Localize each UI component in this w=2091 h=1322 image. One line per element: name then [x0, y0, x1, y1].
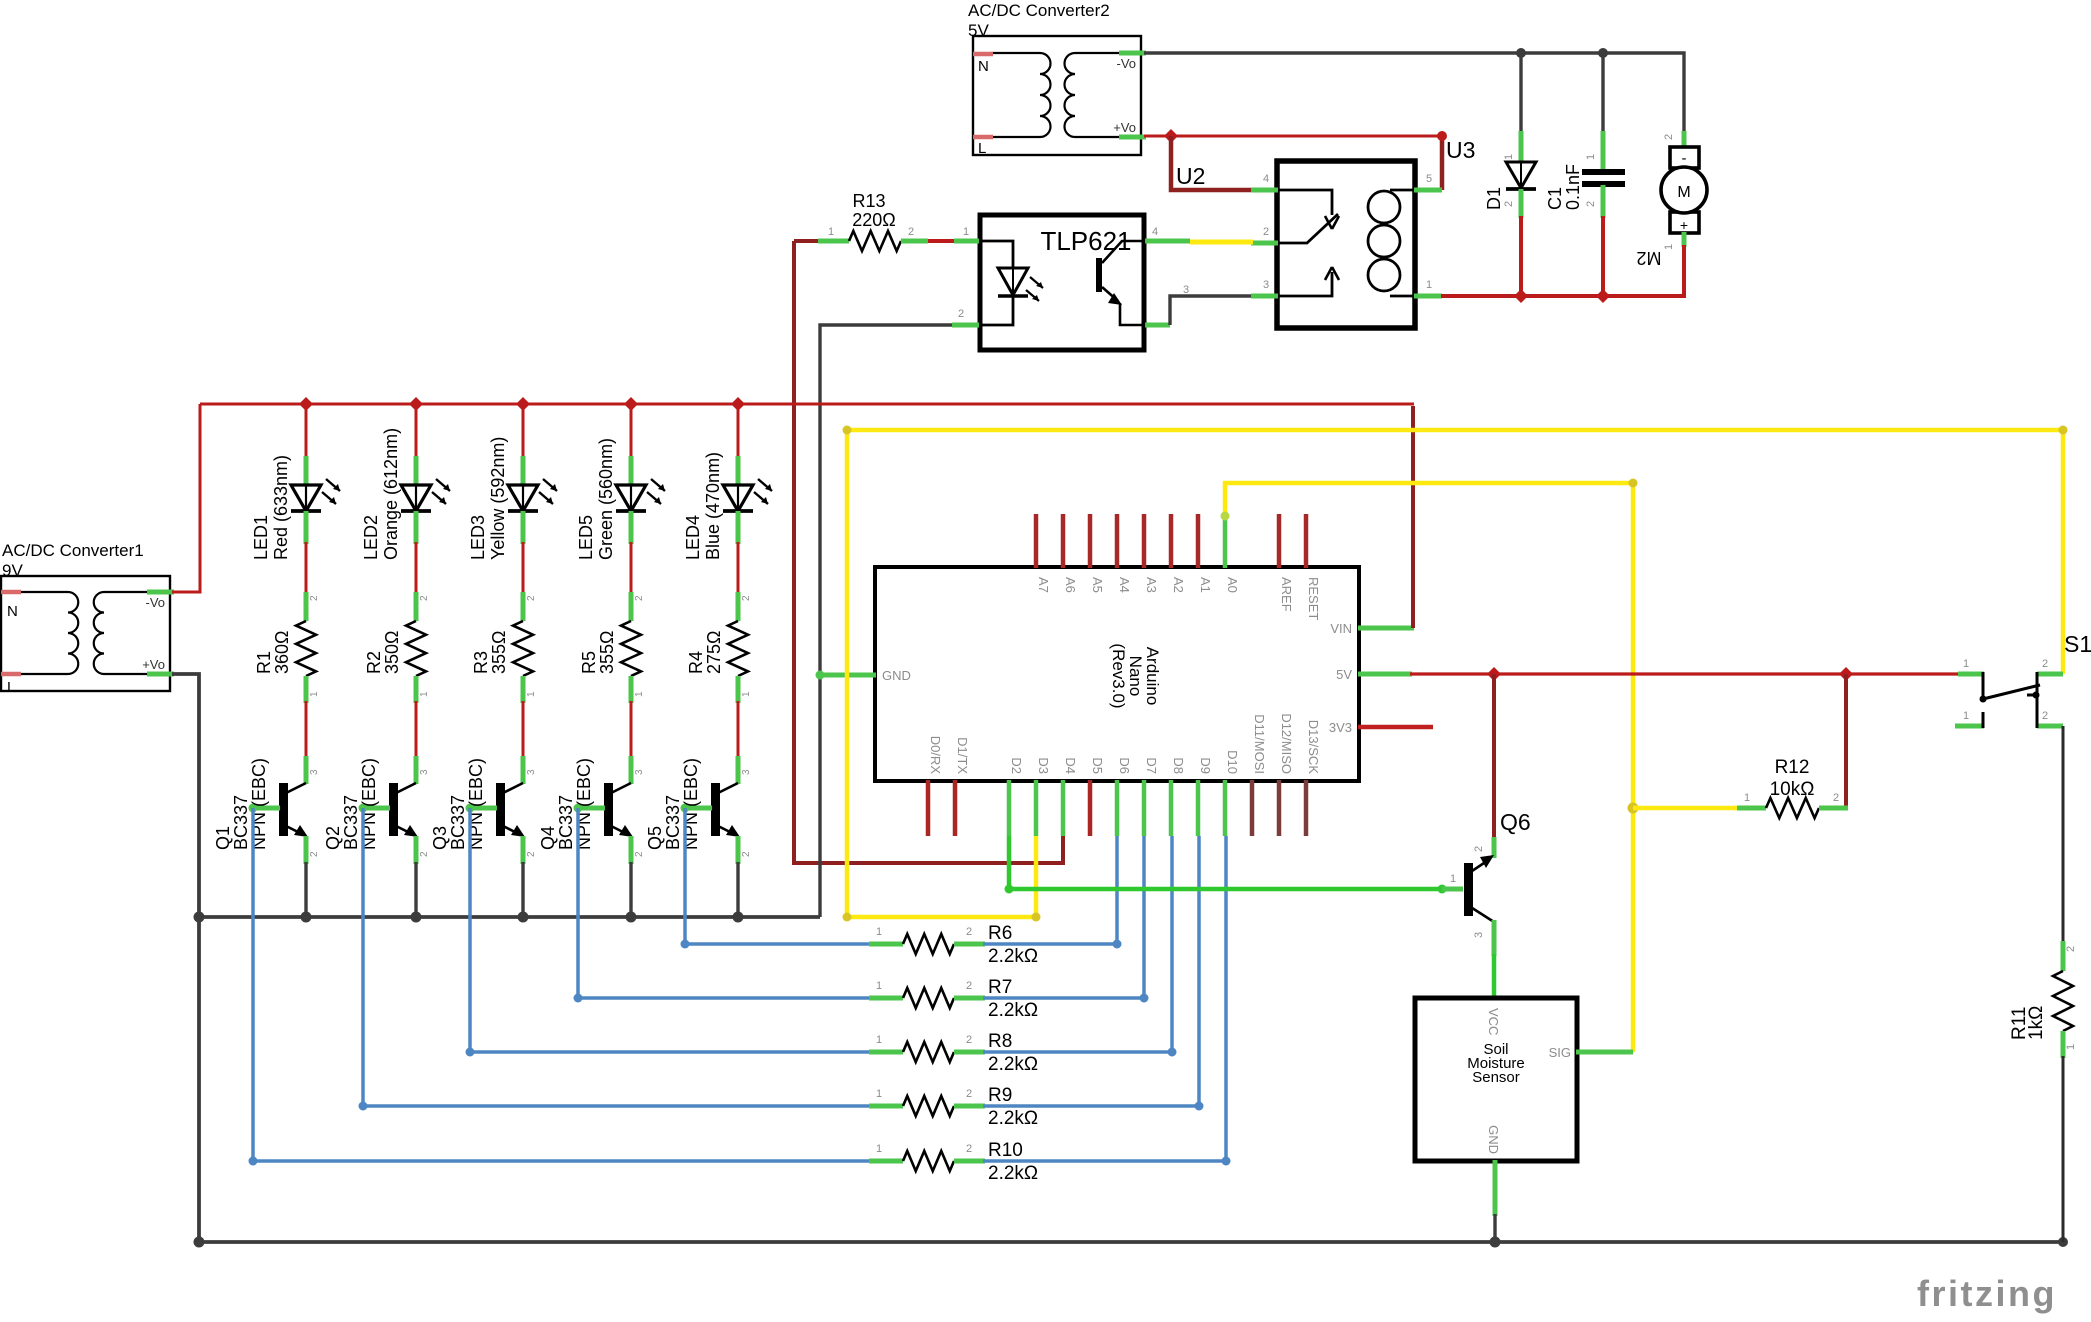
wire ground bus emitters [199, 915, 820, 919]
converter1 -Vo pin stub [147, 590, 174, 595]
svg-text:+Vo: +Vo [1113, 120, 1136, 135]
svg-text:AREF: AREF [1279, 577, 1294, 612]
switch S1 [1955, 672, 2063, 728]
wire U2 branch to relay pin4 [1171, 136, 1253, 190]
svg-text:2: 2 [966, 1088, 972, 1100]
svg-text:10kΩ: 10kΩ [1770, 779, 1815, 800]
svg-text:D10: D10 [1225, 750, 1240, 774]
wire blue R9 to D9 [983, 836, 1199, 1106]
LED LED3 Yellow (592nm) [508, 456, 557, 544]
svg-text:Q3: Q3 [430, 826, 450, 850]
svg-text:BC337: BC337 [556, 795, 576, 850]
converter2 pin N stub [973, 52, 993, 57]
wire -Vo to red LED bus [172, 404, 200, 592]
wire D1 top drop [1519, 53, 1522, 133]
converter1 pin L stub [1, 672, 21, 677]
svg-text:2: 2 [741, 851, 752, 857]
svg-text:L: L [7, 679, 15, 696]
junction red C1 bottom [1596, 289, 1610, 303]
svg-text:R9: R9 [988, 1085, 1012, 1106]
wire yellow to R12 pin1 [1633, 806, 1739, 811]
wire LED2 to R2 [415, 542, 418, 594]
resistor R2 350Ω [406, 592, 426, 703]
svg-text:BC337: BC337 [341, 795, 361, 850]
svg-text:2: 2 [966, 1034, 972, 1046]
transistor Q1 BC337 [249, 756, 309, 864]
wire +Vo to U3 top [1144, 135, 1444, 138]
svg-text:R6: R6 [988, 923, 1012, 944]
svg-text:1: 1 [1963, 658, 1969, 670]
Arduino pin 5V stub [1358, 672, 1412, 677]
junction green GND to dark drop [816, 671, 825, 680]
svg-text:1: 1 [876, 1034, 882, 1046]
svg-text:2: 2 [966, 980, 972, 992]
svg-text:C1: C1 [1545, 187, 1565, 210]
svg-text:3: 3 [1473, 932, 1485, 938]
resistor R1 360Ω [296, 592, 316, 703]
svg-text:2: 2 [1663, 134, 1675, 140]
wire red Q6 drop [1492, 674, 1496, 839]
junction red U2 branch [1164, 129, 1178, 143]
Arduino pin GND stub [820, 673, 876, 678]
wire Q1 emitter to ground bus [304, 862, 307, 917]
wire C1 top drop [1601, 53, 1604, 133]
svg-text:M: M [1677, 184, 1690, 201]
wire green D2 to Q6 base [1009, 836, 1442, 889]
Arduino pin A1 stub [1196, 514, 1201, 568]
svg-text:2.2kΩ: 2.2kΩ [988, 946, 1038, 967]
TLP621 pin2 stub [952, 323, 979, 328]
Arduino pin D10 stub [1223, 780, 1228, 836]
wire R1 to Q1 [305, 701, 308, 758]
junction ground bus Q1 [301, 912, 312, 923]
svg-text:D4: D4 [1063, 757, 1078, 774]
transistor Q3 BC337 [466, 756, 526, 864]
svg-text:220Ω: 220Ω [852, 210, 896, 230]
svg-text:D0/RX: D0/RX [928, 736, 943, 775]
resistor R3 355Ω [513, 592, 533, 703]
junction red bus col R2 [409, 397, 423, 411]
converter1 +Vo pin stub [147, 672, 174, 677]
converter2 pin L stub [973, 135, 993, 140]
junction green Q6 base [1438, 885, 1447, 894]
junction yellow D3 corner [1032, 913, 1041, 922]
svg-text:1: 1 [1663, 244, 1675, 250]
wire R3 to Q3 [522, 701, 525, 758]
svg-text:Q1: Q1 [213, 826, 233, 850]
svg-text:GND: GND [1486, 1125, 1501, 1154]
svg-text:2: 2 [419, 851, 430, 857]
svg-text:1: 1 [419, 691, 430, 697]
svg-text:GND: GND [882, 668, 911, 683]
svg-text:U3: U3 [1446, 137, 1475, 163]
svg-text:2.2kΩ: 2.2kΩ [988, 1000, 1038, 1021]
svg-text:2: 2 [1585, 201, 1597, 207]
svg-text:275Ω: 275Ω [704, 631, 724, 675]
wire relay pin1 red bus [1441, 294, 1605, 298]
svg-text:Orange (612nm): Orange (612nm) [381, 428, 401, 560]
svg-text:1kΩ: 1kΩ [2026, 1006, 2047, 1040]
svg-text:R12: R12 [1775, 757, 1810, 778]
svg-text:2: 2 [741, 595, 752, 601]
svg-text:R7: R7 [988, 977, 1012, 998]
junction blue corner R8 [1168, 1048, 1177, 1057]
svg-text:LED5: LED5 [576, 515, 596, 560]
wire motor pin1 to red bus [1603, 245, 1684, 296]
wire red bus to LED5 [630, 404, 633, 458]
junction ground bus Q3 [518, 912, 529, 923]
svg-text:1: 1 [828, 226, 834, 238]
svg-text:Q2: Q2 [323, 826, 343, 850]
svg-text:R1: R1 [254, 651, 274, 674]
svg-text:2.2kΩ: 2.2kΩ [988, 1108, 1038, 1129]
Arduino pin A5 stub [1088, 514, 1093, 568]
svg-text:VCC: VCC [1486, 1008, 1501, 1035]
Arduino pin A6 stub [1061, 514, 1066, 568]
svg-text:A7: A7 [1036, 577, 1051, 593]
svg-text:N: N [7, 603, 18, 620]
svg-text:A4: A4 [1117, 577, 1132, 593]
wire blue R10 to D10 [983, 836, 1226, 1161]
wire Q5 emitter to ground bus [736, 862, 739, 917]
junction yellow A0 corner [1629, 479, 1638, 488]
junction yellow R12 branch [1628, 803, 1639, 814]
svg-text:U2: U2 [1176, 163, 1205, 189]
junction dark D1 top [1516, 48, 1526, 58]
converter1 pin N stub [1, 590, 21, 595]
svg-text:A1: A1 [1198, 577, 1213, 593]
resistor R11 1kΩ [2053, 941, 2073, 1058]
Arduino pin RESET stub [1304, 514, 1309, 568]
junction green D2 corner [1005, 885, 1014, 894]
resistor R13 [794, 231, 981, 251]
svg-text:BC337: BC337 [231, 795, 251, 850]
svg-text:D12/MISO: D12/MISO [1279, 713, 1294, 774]
wire blue Q4 base [578, 808, 871, 998]
Arduino pin D8 stub [1169, 780, 1174, 836]
wire blue R8 to D8 [983, 836, 1172, 1052]
Arduino pin A0 stub [1223, 514, 1228, 568]
Arduino pin D1/TX stub [953, 780, 958, 836]
Arduino pin D0/RX stub [926, 780, 931, 836]
junction blue corner Q4 [574, 994, 583, 1003]
svg-text:N: N [978, 58, 989, 75]
svg-text:S1: S1 [2064, 631, 2091, 657]
svg-text:1: 1 [963, 226, 969, 238]
wire blue Q2 base [363, 808, 871, 1106]
wire red D4 to R13 (left vertical + bottom run) [794, 241, 1063, 863]
wire blue Q5 base [685, 808, 871, 944]
svg-text:D1/TX: D1/TX [955, 737, 970, 774]
wire green Q6 emitter to sensor VCC [1492, 954, 1497, 999]
wire R5 to Q4 [630, 701, 633, 758]
svg-text:1: 1 [1450, 873, 1456, 885]
TLP621 pin4 stub [1145, 239, 1190, 244]
LED LED5 Green (560nm) [616, 456, 665, 544]
wire VIN riser [1411, 406, 1415, 628]
wire C1 to red bus [1601, 216, 1605, 296]
wire -Vo bus to motor [1144, 53, 1684, 131]
svg-text:1: 1 [876, 980, 882, 992]
junction yellow top-left corner [843, 426, 852, 435]
svg-text:2: 2 [309, 595, 320, 601]
svg-text:A3: A3 [1144, 577, 1159, 593]
svg-text:R3: R3 [471, 651, 491, 674]
svg-text:Blue (470nm): Blue (470nm) [703, 452, 723, 560]
svg-text:D13/SCK: D13/SCK [1306, 720, 1321, 775]
Arduino pin 3V3 stub [1358, 725, 1433, 730]
svg-text:355Ω: 355Ω [597, 631, 617, 675]
wire yellow A0 to R12 and SIG [1225, 483, 1633, 1052]
svg-text:360Ω: 360Ω [272, 631, 292, 675]
svg-text:R10: R10 [988, 1140, 1023, 1161]
soil moisture sensor box [1415, 998, 1577, 1161]
relay pin4 stub [1251, 188, 1278, 193]
svg-text:AC/DC Converter2: AC/DC Converter2 [968, 1, 1110, 20]
svg-text:A2: A2 [1171, 577, 1186, 593]
svg-text:R2: R2 [364, 651, 384, 674]
svg-text:2: 2 [634, 595, 645, 601]
relay switch contacts [1279, 190, 1339, 296]
svg-text:4: 4 [1263, 173, 1269, 185]
junction ground bus Q5 [733, 912, 744, 923]
wire red 9V bus [200, 403, 1414, 406]
junction yellow left corner [843, 913, 852, 922]
Arduino pin D4 stub [1061, 780, 1066, 836]
resistor R10 2.2kΩ [869, 1151, 985, 1171]
svg-text:1: 1 [876, 1143, 882, 1155]
transistor Q2 BC337 [359, 756, 419, 864]
svg-text:2: 2 [966, 1143, 972, 1155]
wire R2 to Q2 [415, 701, 418, 758]
Arduino pin A2 stub [1169, 514, 1174, 568]
wire R4 to Q5 [737, 701, 740, 758]
AC/DC Converter2 U-box [973, 36, 1141, 157]
junction blue corner Q2 [359, 1102, 368, 1111]
Arduino pin A3 stub [1142, 514, 1147, 568]
wire LED5 to R5 [630, 542, 633, 594]
svg-text:3: 3 [1183, 284, 1189, 296]
wire TLP pin2 to ground bus [820, 325, 952, 917]
wire yellow D3 to S1 [847, 430, 2063, 917]
svg-text:3: 3 [419, 769, 430, 775]
junction blue corner Q1 [249, 1157, 258, 1166]
wire blue Q1 base [253, 808, 871, 1161]
svg-text:2: 2 [1263, 226, 1269, 238]
wire red bus to LED3 [522, 404, 525, 458]
svg-text:2: 2 [908, 226, 914, 238]
svg-text:2: 2 [1503, 201, 1515, 207]
svg-text:3V3: 3V3 [1329, 720, 1352, 735]
Arduino pin D6 stub [1115, 780, 1120, 836]
wire blue Q3 base [470, 808, 871, 1052]
svg-text:2.2kΩ: 2.2kΩ [988, 1163, 1038, 1184]
svg-text:2: 2 [634, 851, 645, 857]
svg-text:R4: R4 [686, 651, 706, 674]
junction red Q6 branch [1487, 667, 1501, 681]
LED LED2 Orange (612nm) [401, 456, 450, 544]
svg-text:D5: D5 [1090, 757, 1105, 774]
svg-text:LED1: LED1 [251, 515, 271, 560]
relay U3 box [1277, 161, 1415, 328]
wire blue R6 to D6 [983, 836, 1117, 944]
junction red R12 branch [1839, 667, 1853, 681]
svg-text:R5: R5 [579, 651, 599, 674]
svg-text:(Rev3.0): (Rev3.0) [1109, 643, 1128, 708]
svg-text:A5: A5 [1090, 577, 1105, 593]
svg-text:D8: D8 [1171, 757, 1186, 774]
svg-text:SIG: SIG [1549, 1045, 1571, 1060]
svg-text:Red (633nm): Red (633nm) [271, 455, 291, 560]
svg-text:A6: A6 [1063, 577, 1078, 593]
svg-text:350Ω: 350Ω [382, 631, 402, 675]
converter2 -Vo pin stub [1119, 51, 1146, 56]
wire bottom ground bus [199, 1240, 2063, 1244]
resistor R6 2.2kΩ [869, 934, 985, 954]
svg-text:D3: D3 [1036, 757, 1051, 774]
svg-text:1: 1 [634, 691, 645, 697]
svg-text:1: 1 [526, 691, 537, 697]
resistor R12 10kΩ [1737, 798, 1848, 818]
svg-text:1: 1 [309, 691, 320, 697]
svg-text:VIN: VIN [1330, 621, 1352, 636]
svg-text:R8: R8 [988, 1031, 1012, 1052]
svg-text:TLP621: TLP621 [1040, 226, 1131, 256]
svg-text:Sensor: Sensor [1472, 1069, 1520, 1086]
svg-text:1: 1 [1963, 710, 1969, 722]
wire R11 to ground bus [2062, 1056, 2065, 1242]
junction blue corner Q5 [681, 940, 690, 949]
wire red 5V bus [1410, 672, 1960, 675]
svg-text:Q5: Q5 [645, 826, 665, 850]
svg-text:D11/MOSI: D11/MOSI [1252, 714, 1267, 774]
svg-text:D6: D6 [1117, 757, 1132, 774]
junction ground sensor [1490, 1237, 1501, 1248]
svg-text:2: 2 [1473, 846, 1485, 852]
junction dark C1 top [1598, 48, 1608, 58]
sensor GND stub [1493, 1160, 1498, 1216]
Arduino pin D5 stub [1088, 780, 1093, 836]
svg-text:A0: A0 [1225, 577, 1240, 593]
svg-text:3: 3 [1263, 279, 1269, 291]
resistor R9 2.2kΩ [869, 1096, 985, 1116]
sensor SIG stub [1576, 1050, 1633, 1055]
svg-text:D9: D9 [1198, 757, 1213, 774]
wire +Vo down to ground bus [172, 674, 199, 1242]
svg-text:355Ω: 355Ω [489, 631, 509, 675]
svg-text:2: 2 [2065, 946, 2077, 952]
motor M2 [1661, 131, 1707, 247]
junction red D1 bottom [1514, 289, 1528, 303]
svg-text:2: 2 [966, 926, 972, 938]
svg-text:0.1nF: 0.1nF [1563, 164, 1583, 210]
svg-text:+: + [1680, 217, 1688, 233]
junction bottom-left corner [194, 1237, 205, 1248]
transistor Q6 [1442, 837, 1494, 956]
junction red bus col R5 [624, 397, 638, 411]
svg-text:+Vo: +Vo [142, 657, 165, 672]
junction ground bus Q2 [411, 912, 422, 923]
wire red bus to LED4 [737, 404, 740, 458]
resistor R4 275Ω [728, 592, 748, 703]
svg-text:2.2kΩ: 2.2kΩ [988, 1054, 1038, 1075]
wire LED3 to R3 [522, 542, 525, 594]
svg-text:1: 1 [2065, 1044, 2077, 1050]
svg-text:-Vo: -Vo [145, 595, 165, 610]
TLP621 pin3 stub [1145, 323, 1170, 328]
relay pin2 stub [1251, 241, 1278, 246]
svg-text:M2: M2 [1636, 248, 1661, 268]
svg-text:Green (560nm): Green (560nm) [596, 438, 616, 560]
transistor Q4 BC337 [574, 756, 634, 864]
LED LED1 Red (633nm) [291, 456, 340, 544]
Arduino Nano U1 box [875, 567, 1359, 781]
svg-text:D7: D7 [1144, 757, 1159, 774]
wire sensor GND to ground bus [1493, 1214, 1496, 1242]
wire red bus to LED2 [415, 404, 418, 458]
svg-text:RESET: RESET [1306, 577, 1321, 620]
svg-text:-Vo: -Vo [1116, 56, 1136, 71]
svg-text:1: 1 [1503, 154, 1515, 160]
svg-text:Yellow (592nm): Yellow (592nm) [488, 437, 508, 560]
Arduino pin D13/SCK stub [1304, 780, 1309, 836]
wire Q4 emitter to ground bus [629, 862, 632, 917]
diode D1 [1506, 131, 1536, 218]
svg-text:R13: R13 [852, 191, 885, 211]
relay pin3 stub [1251, 294, 1278, 299]
svg-text:1: 1 [876, 1088, 882, 1100]
junction green A0 wire end [1221, 512, 1230, 521]
svg-text:L: L [978, 140, 986, 157]
TLP621 internal LED [982, 241, 1043, 325]
wire LED1 to R1 [305, 542, 308, 594]
TLP621 pin1 stub [956, 239, 979, 244]
Arduino pin D11/MOSI stub [1250, 780, 1255, 836]
svg-text:D1: D1 [1484, 187, 1504, 210]
svg-text:1: 1 [741, 691, 752, 697]
svg-text:3: 3 [634, 769, 645, 775]
Arduino pin D3 stub [1034, 780, 1039, 836]
svg-text:4: 4 [1152, 226, 1158, 238]
junction blue corner R7 [1140, 994, 1149, 1003]
svg-text:LED4: LED4 [683, 515, 703, 560]
TLP621 internal phototransistor [1096, 241, 1142, 325]
junction yellow top-right corner [2059, 426, 2068, 435]
transistor Q5 BC337 [681, 756, 741, 864]
wire TLP pin3 to relay pin3 [1170, 296, 1251, 325]
wire Q2 emitter to ground bus [414, 862, 417, 917]
AC/DC Converter1 U-box [1, 576, 170, 696]
junction red bus col R4 [731, 397, 745, 411]
relay pin1 stub [1414, 294, 1442, 299]
svg-text:D2: D2 [1009, 757, 1024, 774]
svg-text:BC337: BC337 [663, 795, 683, 850]
resistor R8 2.2kΩ [869, 1042, 985, 1062]
Arduino pin AREF stub [1277, 514, 1282, 568]
wire blue R7 to D7 [983, 836, 1144, 998]
capacitor C1 [1582, 131, 1625, 218]
converter2 +Vo pin stub [1119, 135, 1146, 140]
svg-text:LED2: LED2 [361, 515, 381, 560]
relay pin5 stub [1414, 188, 1442, 193]
svg-text:3: 3 [526, 769, 537, 775]
svg-text:2: 2 [958, 308, 964, 320]
svg-text:fritzing: fritzing [1917, 1273, 2057, 1314]
svg-text:-: - [1682, 150, 1687, 167]
junction red bus col R3 [516, 397, 530, 411]
Arduino pin A4 stub [1115, 514, 1120, 568]
wire dark red R12 riser [1844, 674, 1848, 808]
